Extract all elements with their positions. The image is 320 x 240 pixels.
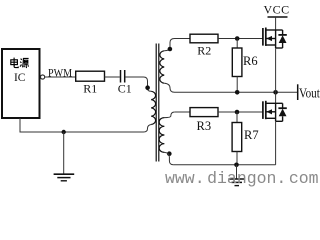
node R7/ground junction bbox=[234, 163, 239, 168]
wire Q2 source to bottom rail bbox=[275, 121, 277, 165]
node R6/rail junction bbox=[235, 90, 240, 95]
primary phasing dot bbox=[145, 85, 150, 90]
VCC supply bar bbox=[268, 16, 288, 18]
Vout terminal tick bbox=[297, 84, 299, 100]
svg-text:R6: R6 bbox=[243, 54, 258, 68]
capacitor C1 bbox=[120, 70, 122, 83]
电 bbox=[11, 60, 18, 65]
transformer T1 secondary winding S1 (top) bbox=[160, 51, 164, 83]
svg-text:R2: R2 bbox=[197, 43, 211, 57]
wire Vout rail to Q2 drain bbox=[275, 92, 277, 103]
PWM output terminal circle bbox=[41, 75, 45, 79]
svg-text:R3: R3 bbox=[197, 119, 212, 133]
node: primary-return / ground junction bbox=[62, 130, 66, 134]
bottom secondary phasing dot bbox=[167, 151, 172, 156]
wire junction to ground bbox=[63, 132, 65, 174]
resistor R6 bbox=[232, 48, 242, 77]
svg-text:C1: C1 bbox=[118, 81, 132, 95]
node Q1-source/Q2-drain junction bbox=[273, 90, 278, 95]
svg-text:R7: R7 bbox=[244, 128, 259, 142]
wire R7 to bottom rail bbox=[236, 152, 238, 165]
resistor R2 bbox=[190, 34, 218, 43]
wire junction to R7 bbox=[236, 112, 238, 123]
transformer T1 core bbox=[155, 44, 157, 162]
wire C1 to transformer primary top bbox=[125, 77, 151, 91]
node R3/R7 junction bbox=[235, 110, 240, 115]
svg-text:R1: R1 bbox=[83, 81, 97, 95]
top secondary phasing dot bbox=[168, 47, 173, 52]
ground GND1 bbox=[54, 174, 75, 181]
IC U1 label 电源 (hand-drawn strokes) bbox=[11, 58, 29, 68]
wire bottom secondary bottom to bottom rail bbox=[164, 152, 173, 164]
wire VCC to Q1 drain bbox=[275, 17, 277, 30]
wire secondary S2 to R3 bbox=[175, 111, 190, 113]
resistor R7 bbox=[232, 123, 242, 152]
wire top secondary bottom to Vout rail bbox=[164, 83, 174, 92]
transformer T1 secondary winding S2 (bottom) bbox=[159, 118, 164, 153]
IC U1 power-supply IC box bbox=[2, 49, 40, 118]
resistor R1 bbox=[76, 71, 105, 81]
wire junction to ground bbox=[236, 165, 238, 179]
wire primary bottom to ground rail bbox=[20, 118, 151, 132]
transistor Q1 (top N-MOSFET with body diode) bbox=[263, 28, 287, 49]
Vout rail bbox=[175, 91, 298, 93]
svg-text:www.diangon.com: www.diangon.com bbox=[165, 169, 319, 188]
wire secondary S1 to R2 bbox=[175, 38, 191, 40]
svg-text:Vout: Vout bbox=[299, 86, 320, 101]
wire R3 to gate of Q2 bbox=[218, 111, 263, 113]
node R2/R6 junction bbox=[235, 36, 240, 41]
wire junction to R6 bbox=[236, 39, 238, 49]
transformer T1 primary winding bbox=[151, 91, 155, 124]
源 bbox=[20, 59, 22, 67]
wire top secondary top to R2 row bbox=[164, 39, 174, 51]
wire bottom secondary top to R3 row bbox=[164, 112, 174, 118]
wire Q1 source to Vout rail bbox=[275, 48, 277, 92]
wire R1 to C1 bbox=[105, 76, 120, 78]
wire PWM terminal to R1 bbox=[45, 76, 76, 78]
wire R6 to Vout rail bbox=[236, 77, 238, 93]
resistor R3 bbox=[190, 108, 218, 117]
ground GND2 bbox=[228, 179, 245, 186]
svg-text:IC: IC bbox=[14, 72, 26, 84]
wire R2 to gate of Q1 bbox=[218, 38, 263, 40]
svg-text:VCC: VCC bbox=[264, 3, 290, 17]
bottom rail bbox=[173, 164, 275, 166]
transistor Q2 (bottom N-MOSFET with body diode) bbox=[263, 101, 287, 122]
